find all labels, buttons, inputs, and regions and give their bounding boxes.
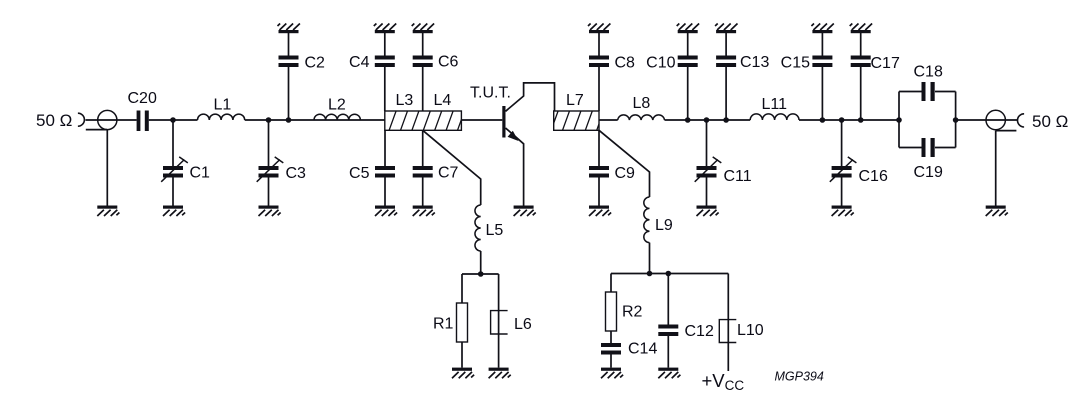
ground C11 [697, 206, 717, 209]
capacitor C4 [375, 56, 395, 68]
wire C16 to ground [841, 178, 843, 206]
wire C9 down from stripline [598, 130, 600, 166]
stripline L7 hatched box [551, 111, 615, 131]
wire C1 to ground [172, 178, 174, 206]
wire collector bias rail [611, 273, 728, 275]
wire C19 bottom branch [899, 147, 956, 149]
resistor R2 [606, 292, 617, 331]
node C3 junction [266, 117, 272, 123]
wire stripline L7 bottom to L9 (collector bias tap) [599, 130, 650, 197]
wire C3 to ground [268, 178, 270, 206]
wire L8 to L11 [665, 119, 751, 121]
svg-text:50 Ω: 50 Ω [1032, 112, 1068, 131]
wire output connector to ground [995, 131, 997, 206]
svg-text:MGP394: MGP394 [775, 370, 824, 384]
ground C6 (top) [413, 30, 433, 33]
capacitor C11 (variable) [697, 166, 717, 178]
wire C17 to top ground [860, 33, 862, 56]
svg-text:C3: C3 [286, 165, 307, 182]
emitter wire with arrow [506, 128, 524, 206]
node C2 junction [286, 117, 292, 123]
wire base bias rail [462, 273, 499, 275]
wire rail to R2 [610, 274, 612, 293]
svg-text:C6: C6 [438, 54, 459, 71]
ground output [986, 206, 1006, 209]
wire rail to C12 [667, 274, 669, 325]
ground C2 (top) [279, 30, 299, 33]
svg-text:L4: L4 [434, 92, 452, 109]
svg-text:L11: L11 [762, 96, 788, 113]
node C12 rail junction [666, 271, 672, 277]
svg-text:L2: L2 [328, 97, 346, 114]
wire C2 to top ground [288, 33, 290, 56]
svg-text:C14: C14 [628, 341, 657, 358]
node C15 junction [820, 117, 826, 123]
capacitor C10 [678, 56, 698, 68]
wire C2 node up [288, 67, 290, 120]
capacitor C17 [851, 56, 871, 68]
inductor L8 [618, 115, 665, 120]
wire stripline to transistor base [461, 119, 502, 121]
node L5 rail junction [478, 271, 484, 277]
ground C14 [601, 368, 621, 371]
inductor L11 [750, 114, 799, 120]
ground C12 [658, 368, 678, 371]
node C18/C19 left junction [896, 117, 902, 123]
svg-text:C11: C11 [724, 168, 752, 185]
ground C9 [589, 206, 609, 209]
collector wire [506, 83, 555, 111]
svg-text:C2: C2 [305, 55, 326, 72]
wire input connector to ground [106, 130, 108, 206]
wire C5 stripline down [384, 130, 386, 166]
capacitor C19 [922, 138, 935, 157]
svg-text:R2: R2 [622, 304, 643, 321]
wire L1 to stripline L3 [245, 119, 385, 121]
capacitor C9 [589, 166, 609, 178]
inductor L5 (vertical) [475, 205, 481, 251]
wire input to C20 [86, 119, 137, 121]
ground C1 [163, 206, 183, 209]
wire C4 down to stripline [384, 67, 386, 111]
wire C18 top branch [899, 91, 956, 93]
node C13 junction [723, 117, 729, 123]
svg-text:C9: C9 [615, 165, 636, 182]
node L9 rail junction [647, 271, 653, 277]
capacitor C13 [716, 56, 736, 68]
wire R1 to ground [461, 342, 463, 368]
wire C7 to ground [422, 178, 424, 206]
svg-text:C12: C12 [685, 323, 714, 340]
svg-text:C4: C4 [349, 54, 370, 71]
wire L9 to collector rail [649, 243, 651, 274]
ground R1 [452, 368, 472, 371]
wire C11 to ground [706, 178, 708, 206]
svg-text:L8: L8 [633, 95, 651, 112]
svg-text:C13: C13 [740, 54, 769, 71]
svg-text:C15: C15 [781, 55, 810, 72]
resistor R1 [457, 303, 468, 342]
wire stripline L7 to L8 [599, 119, 618, 121]
svg-text:C17: C17 [871, 55, 900, 72]
ground C10 (top) [678, 30, 698, 33]
svg-text:C8: C8 [615, 55, 636, 72]
svg-text:L7: L7 [566, 92, 584, 109]
ground C3 [259, 206, 279, 209]
svg-text:C18: C18 [914, 64, 943, 81]
wire C7 stripline down [422, 130, 424, 166]
wire C6 to top ground [422, 33, 424, 56]
capacitor C2 [279, 56, 299, 68]
ground emitter [514, 206, 534, 209]
capacitor C1 (variable) [163, 166, 183, 178]
svg-text:L9: L9 [655, 217, 673, 234]
ground C15 (top) [812, 30, 832, 33]
inductor L10 (bead) [719, 320, 736, 343]
ground C5 [375, 206, 395, 209]
wire rail through L6 to ground [498, 274, 500, 368]
inductor L9 (vertical) [644, 197, 650, 243]
wire C4 to top ground [384, 33, 386, 56]
wire C13 up [725, 67, 727, 120]
transistor Q1 T.U.T. [502, 106, 505, 138]
node C17 junction [858, 117, 864, 123]
wire C6 down to stripline [422, 67, 424, 111]
node C11 junction [704, 117, 710, 123]
wire C10 to top ground [687, 33, 689, 56]
svg-text:C20: C20 [128, 90, 157, 107]
wire stripline bottom to L5 (base bias tap) [423, 130, 481, 205]
wire C15 to top ground [821, 33, 823, 56]
wire C17 up [860, 67, 862, 120]
capacitor C12 [658, 325, 678, 337]
input connector shield stub [86, 129, 107, 131]
wire C14 to ground [610, 355, 612, 368]
svg-text:50 Ω: 50 Ω [36, 111, 72, 130]
wire C20 to L1 [149, 119, 198, 121]
ground C17 (top) [851, 30, 871, 33]
capacitor C20 [137, 111, 149, 132]
inductor L6 (bead) [491, 311, 508, 334]
output connector circle J2 [986, 110, 1005, 129]
output connector mating arc [1018, 114, 1025, 127]
wire L11 to C18 node [799, 119, 899, 121]
capacitor C5 [375, 166, 395, 178]
input connector circle J1 [98, 110, 117, 129]
inductor L1 [198, 114, 245, 120]
capacitor C3 (variable) [259, 166, 279, 178]
output connector shield stub [996, 130, 1017, 132]
svg-text:L1: L1 [214, 97, 232, 114]
capacitor C6 [413, 56, 433, 68]
node C10 junction [685, 117, 691, 123]
wire C18/C19 right riser [955, 92, 957, 148]
svg-text:L5: L5 [486, 222, 504, 239]
ground C13 (top) [716, 30, 736, 33]
wire C9 to ground [598, 178, 600, 206]
svg-text:C5: C5 [349, 165, 370, 182]
svg-text:C7: C7 [438, 165, 459, 182]
capacitor C8 [589, 56, 609, 68]
node C18/C19 right junction [953, 117, 959, 123]
wire C8 to top ground [598, 33, 600, 56]
wire L5 to bias rail [480, 251, 482, 274]
wire node to C1 [172, 120, 174, 166]
svg-text:T.U.T.: T.U.T. [470, 85, 511, 102]
node C16 junction [839, 117, 845, 123]
wire C13 to top ground [725, 33, 727, 56]
svg-text:R1: R1 [433, 316, 454, 333]
ground C7 [413, 206, 433, 209]
wire node to C3 [268, 120, 270, 166]
wire rail through L10 to VCC [727, 274, 729, 372]
ground input [97, 206, 117, 209]
svg-text:L6: L6 [514, 316, 532, 333]
wire R2 to C14 [610, 331, 612, 343]
wire to output connector [956, 119, 1018, 121]
svg-text:C10: C10 [646, 55, 675, 72]
wire C5 to ground [384, 178, 386, 206]
ground C4 (top) [375, 30, 395, 33]
capacitor C7 [413, 166, 433, 178]
ground C16 [832, 206, 852, 209]
ground C8 (top) [589, 30, 609, 33]
inductor L2 [314, 114, 360, 120]
stripline L3 L4 hatched box [385, 111, 476, 131]
wire C10 up [687, 67, 689, 120]
ground L6 [489, 368, 509, 371]
wire rail to R1 [461, 274, 463, 303]
node C1 junction [170, 117, 176, 123]
capacitor C18 [922, 82, 935, 101]
svg-text:L3: L3 [396, 92, 414, 109]
svg-text:C1: C1 [190, 165, 211, 182]
svg-text:C19: C19 [914, 164, 943, 181]
svg-text:C16: C16 [859, 168, 888, 185]
wire C16 down [841, 120, 843, 166]
wire C18/C19 left riser [898, 92, 900, 148]
svg-text:L10: L10 [737, 322, 764, 339]
capacitor C14 [601, 343, 621, 355]
capacitor C16 (variable) [832, 166, 852, 178]
input connector mating arc [78, 113, 85, 126]
wire C11 down [706, 120, 708, 166]
wire C15 up [821, 67, 823, 120]
wire C12 to ground [667, 336, 669, 368]
wire C8 up from stripline [598, 67, 600, 111]
capacitor C15 [812, 56, 832, 68]
